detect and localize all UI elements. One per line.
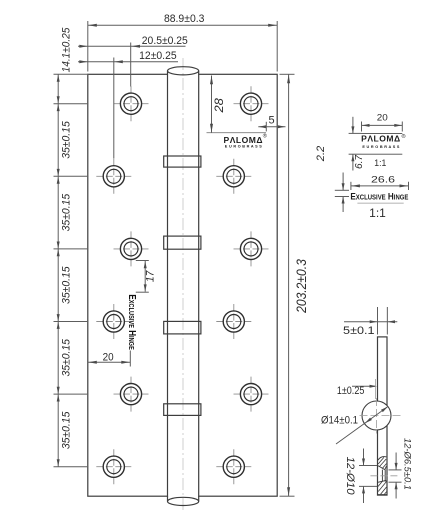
- svg-text:12±0.25: 12±0.25: [139, 50, 177, 62]
- detail: dim 26.6: [351, 182, 409, 190]
- svg-text:20: 20: [377, 112, 388, 122]
- left dimension column line: [57, 74, 59, 466]
- svg-text:12-Ø6.5±0.1: 12-Ø6.5±0.1: [402, 438, 413, 490]
- svg-text:6.7: 6.7: [353, 154, 365, 169]
- svg-text:12-Ø10: 12-Ø10: [344, 457, 356, 496]
- svg-text:1±0.25: 1±0.25: [337, 385, 365, 397]
- detail: underline: [357, 202, 403, 204]
- svg-text:PΛLOMΔ: PΛLOMΔ: [224, 135, 264, 145]
- hole 3: [96, 159, 131, 194]
- knuckle washer band 3: [164, 321, 201, 334]
- detail: small dim 2.2 apparatus: [335, 173, 349, 213]
- dim 20.5±0.25: [78, 43, 186, 87]
- stamp line above logo (ext of 28 dim): [207, 132, 267, 134]
- hole 7: [96, 304, 131, 339]
- svg-text:Exclusive Hinge: Exclusive Hinge: [350, 191, 408, 202]
- tick y=466.7: [54, 466, 89, 468]
- pin cap top: [168, 67, 199, 75]
- tick y=248.9: [54, 248, 89, 250]
- label 1±0.25 with arrow: [352, 385, 376, 387]
- svg-text:20.5±0.25: 20.5±0.25: [142, 35, 188, 47]
- hole 2: [234, 86, 269, 121]
- svg-text:28: 28: [212, 98, 226, 114]
- svg-text:®: ®: [263, 132, 267, 139]
- dim 88.9±0.3: [88, 21, 277, 72]
- hole 5: [114, 231, 149, 266]
- knuckle washer band 4: [164, 404, 201, 416]
- circle centerlines: [360, 415, 401, 417]
- hole 8: [216, 304, 251, 339]
- svg-text:Exclusive Hinge: Exclusive Hinge: [126, 294, 137, 350]
- dim 12±0.25: [78, 58, 178, 159]
- svg-text:5: 5: [268, 114, 274, 126]
- side: ext lines for 5 dim: [344, 307, 397, 335]
- svg-text:35±0.15: 35±0.15: [61, 338, 73, 376]
- tick y=74.3: [54, 73, 89, 75]
- svg-text:E U R O B R A S S: E U R O B R A S S: [225, 145, 262, 149]
- tick y=394.1: [54, 393, 89, 395]
- svg-text:PΛLOMΔ: PΛLOMΔ: [361, 133, 401, 143]
- dim 12-Ø10: [359, 449, 377, 504]
- detail: dim 20: [362, 122, 403, 132]
- svg-text:35±0.15: 35±0.15: [61, 411, 73, 449]
- hatch top: [378, 457, 386, 468]
- knuckle washer band 2: [164, 236, 201, 249]
- hole 4: [216, 159, 251, 194]
- hole 9: [114, 377, 149, 412]
- side view bar: [378, 337, 388, 495]
- left leaf: [88, 74, 168, 496]
- svg-text:35±0.15: 35±0.15: [61, 193, 73, 231]
- dim 20: [88, 351, 131, 367]
- svg-text:26.6: 26.6: [371, 174, 395, 185]
- tick y=321.5: [54, 321, 89, 323]
- svg-text:5±0.1: 5±0.1: [343, 325, 375, 337]
- dim 5: [258, 122, 285, 132]
- hole 1: [114, 86, 149, 121]
- svg-text:14.1±0.25: 14.1±0.25: [61, 27, 73, 73]
- hatch bottom: [378, 481, 387, 494]
- svg-text:1:1: 1:1: [374, 158, 386, 168]
- countersink section: [378, 457, 387, 495]
- detail: dim 6.7: [349, 117, 362, 171]
- detail: logo box: [362, 132, 403, 134]
- leader for Ø14: [336, 406, 388, 444]
- knuckle circle: [362, 401, 391, 430]
- countersink centerline: [370, 475, 399, 477]
- svg-text:20: 20: [103, 352, 114, 364]
- hole 10: [234, 377, 269, 412]
- hole 6: [234, 231, 269, 266]
- dim 28: [211, 76, 213, 133]
- svg-text:17: 17: [144, 270, 156, 282]
- svg-text:203.2±0.3: 203.2±0.3: [294, 259, 309, 314]
- tick y=176.3: [54, 175, 89, 177]
- svg-text:Ø14±0.1: Ø14±0.1: [321, 415, 358, 427]
- right leaf: [199, 74, 278, 496]
- hole 11: [96, 449, 131, 484]
- svg-text:®: ®: [401, 133, 405, 140]
- tick y=103.7: [54, 103, 89, 105]
- svg-text:88.9±0.3: 88.9±0.3: [164, 13, 205, 25]
- svg-text:35±0.15: 35±0.15: [61, 266, 73, 304]
- svg-text:E U R O B R A S S: E U R O B R A S S: [362, 145, 399, 149]
- knuckle washer band 1: [164, 156, 201, 167]
- dim 17: [136, 261, 149, 293]
- pin centerline: [182, 58, 184, 511]
- svg-text:1:1: 1:1: [369, 208, 386, 220]
- svg-text:2.2: 2.2: [315, 146, 327, 163]
- dim 203.2±0.3: [280, 74, 295, 496]
- dim 12-Ø6.5±0.1: [389, 453, 402, 499]
- pin cap bottom: [168, 496, 199, 505]
- svg-text:35±0.15: 35±0.15: [61, 120, 73, 158]
- hole 12: [216, 449, 251, 484]
